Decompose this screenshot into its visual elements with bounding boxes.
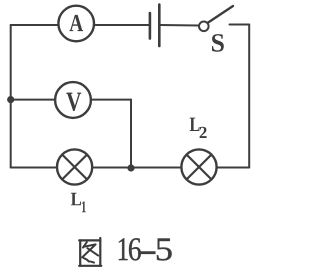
wire bottom-left (L1 to left corner) (11, 167, 57, 169)
wire top-left horizontal (11, 24, 59, 26)
ammeter A (58, 6, 94, 42)
wire voltmeter branch right (91, 99, 131, 101)
wire top-middle (ammeter to battery) (94, 24, 149, 26)
wire bottom-right (corner to lamp L2) (217, 167, 250, 169)
voltmeter V (55, 82, 91, 118)
lamp L1 (57, 149, 92, 184)
caption character tu (figure) drawn as strokes (79, 238, 101, 266)
wire left vertical (10, 25, 12, 168)
battery cell (150, 5, 159, 47)
label L2 (190, 118, 207, 138)
wire right vertical (248, 25, 250, 168)
wire voltmeter branch left (11, 99, 56, 101)
node junction left (voltmeter branch tap) (7, 96, 14, 103)
switch S (199, 6, 233, 52)
label L1 (71, 193, 86, 212)
wire voltmeter branch vertical down (130, 100, 132, 168)
battery long plate (158, 5, 161, 47)
wire bottom-middle (L2 to L1 through junction) (92, 167, 181, 169)
caption text 16-5 (119, 238, 128, 260)
wire top-right horizontal (230, 24, 250, 26)
lamp L2 (181, 149, 216, 184)
wire battery to switch (161, 24, 200, 27)
battery short plate (149, 13, 152, 39)
node junction bottom (voltmeter branch to bottom wire) (127, 164, 134, 171)
